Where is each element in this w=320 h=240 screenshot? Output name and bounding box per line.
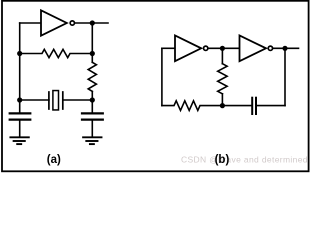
wire: (b) bottom wire to capacitor: [222, 105, 251, 107]
wire: (b) input wire to first inverter: [162, 47, 175, 49]
wire: (b) left rail: [161, 48, 163, 105]
node: (a) left rail / R1 junction: [17, 51, 22, 56]
resistor R1 feedback (a): [20, 49, 93, 57]
ground (a right): [83, 137, 101, 144]
op-amp U3 inverter (b second): [240, 35, 273, 61]
wire: (a) crystal branch right: [63, 99, 93, 101]
ground (a left): [10, 137, 28, 144]
wire: (b) capacitor to right rail: [257, 105, 285, 107]
node: (a) right rail / crystal junction: [90, 97, 95, 102]
wire: (a) crystal branch left: [20, 99, 49, 101]
svg-text:(b): (b): [215, 154, 230, 166]
wire: (a) inverter output: [75, 22, 108, 24]
wire: (b) right rail: [284, 48, 286, 105]
resistor R2 vertical (a): [88, 62, 96, 91]
op-amp U1 inverter (a): [41, 10, 74, 35]
wire: (b) output wire: [273, 47, 298, 49]
node: (a) left rail / crystal junction: [17, 97, 22, 102]
node: (b) output junction: [282, 46, 287, 51]
crystal Y1 (a): [49, 91, 63, 110]
wire: (a) C1 to ground: [19, 121, 21, 137]
wire: (a) C2 to ground: [91, 121, 93, 137]
resistor R3 horizontal (b) with bottom wire: [162, 101, 223, 111]
node: (b) bottom junction: [220, 103, 225, 108]
wire: (b) between inverters: [209, 47, 240, 49]
capacitor C2 (a right): [82, 113, 103, 119]
resistor R4 vertical (b): [218, 64, 227, 94]
capacitor C1 (a left): [10, 113, 31, 119]
node: (a) right rail / R1 junction: [90, 51, 95, 56]
node: (b) mid junction: [220, 46, 225, 51]
wire: (a) left rail: [19, 23, 21, 113]
svg-text:CSDN @brave and determined: CSDN @brave and determined: [181, 155, 308, 165]
capacitor C3 (b): [252, 98, 256, 114]
wire: (a) right rail upper: [91, 23, 93, 62]
wire: (a) input wire from left rail to inverter: [20, 22, 41, 24]
node: (a) output junction: [90, 20, 95, 25]
wire: (b) vertical resistor bottom lead: [221, 94, 223, 106]
op-amp U2 inverter (b first): [175, 35, 208, 61]
wire: (a) right rail lower: [91, 91, 93, 113]
wire: (b) vertical resistor top lead: [221, 48, 223, 63]
svg-text:(a): (a): [47, 154, 61, 166]
